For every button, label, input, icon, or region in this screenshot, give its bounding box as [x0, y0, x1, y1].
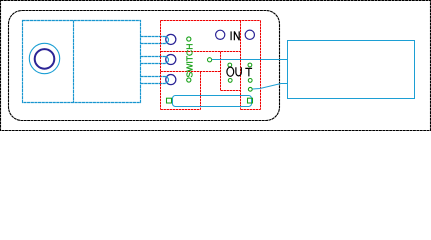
label IN: [231, 31, 239, 40]
switch bottom edge right: [241, 109, 261, 111]
wire net1: [212, 59, 288, 61]
wire net2: [252, 84, 287, 90]
switch mid horizontal: [161, 51, 241, 53]
fuse pad left: [167, 98, 172, 103]
mounting hole pad: [35, 49, 55, 69]
fuse pad right: [248, 98, 253, 103]
connector block: [288, 41, 415, 99]
switch S1 outline: [161, 21, 261, 110]
via net1: [208, 58, 212, 62]
pad P3: [166, 75, 176, 85]
switch bottom edge left: [161, 109, 201, 111]
switch inner vertical 3: [220, 52, 222, 91]
pad P2: [166, 54, 176, 64]
via net2: [248, 87, 252, 91]
trace 1 outline lines: [141, 36, 166, 38]
mounting hole ring outer: [29, 43, 59, 73]
switch lower horizontal: [161, 71, 221, 73]
trace 3 outline lines: [141, 76, 166, 78]
fuse trace stadium: [173, 96, 252, 107]
via top of SWITCH: [187, 37, 191, 41]
pour divider line: [73, 21, 75, 103]
via OUT bottom-left: [228, 79, 232, 83]
pad P1: [166, 34, 176, 44]
via OUT bottom-right: [248, 79, 252, 83]
switch right edge: [260, 21, 262, 110]
trace 2 outline lines: [141, 56, 166, 58]
pad IN left: [216, 30, 225, 39]
via OUT top-right: [248, 63, 252, 67]
pad IN right: [245, 30, 254, 39]
frame border: [1, 1, 431, 131]
via OUT top-left: [228, 63, 232, 67]
board outline: [9, 11, 280, 121]
trace 2 end cap: [165, 57, 168, 64]
via bottom of SWITCH: [187, 78, 191, 82]
switch inner vertical 2: [200, 72, 202, 110]
switch left edge: [160, 21, 162, 110]
label OUT: [227, 67, 252, 76]
switch top edge: [161, 20, 261, 22]
copper pour rectangle: [23, 21, 141, 103]
trace 1 end cap: [165, 37, 168, 44]
trace 3 end cap: [165, 77, 168, 84]
switch step horizontal: [221, 90, 241, 92]
svg-text:SWITCH: SWITCH: [185, 43, 195, 77]
switch inner vertical: [240, 21, 242, 110]
